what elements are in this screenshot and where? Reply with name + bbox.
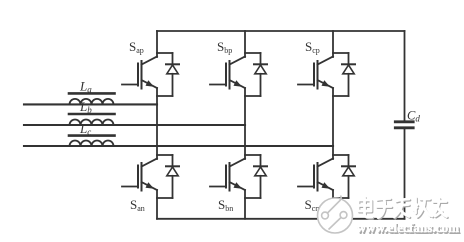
wire phase A line bbox=[24, 103, 157, 105]
diode of Scn bbox=[333, 155, 355, 198]
capacitor Cd bbox=[395, 122, 413, 128]
wire leg C verticals bbox=[332, 31, 334, 219]
inductor Lb bbox=[69, 114, 115, 125]
transistor Scn (IGBT) bbox=[298, 159, 333, 191]
wire DC link right branch upper bbox=[404, 31, 406, 120]
diode of Sap bbox=[157, 53, 179, 96]
wire DC- bottom rail bbox=[157, 218, 405, 220]
watermark url text bbox=[357, 220, 461, 236]
wire leg A verticals bbox=[156, 31, 158, 219]
inductor Lc bbox=[69, 136, 115, 146]
wire DC link right branch lower bbox=[404, 129, 406, 219]
transistor Sbp (IGBT) bbox=[210, 57, 245, 89]
diode of Scp bbox=[333, 53, 355, 96]
watermark logo circle bbox=[318, 196, 353, 234]
diode of Sbp bbox=[245, 53, 267, 96]
wire phase B line bbox=[24, 124, 245, 126]
wire DC+ top rail bbox=[157, 30, 405, 32]
diode of Sbn bbox=[245, 155, 267, 198]
transistor San (IGBT) bbox=[122, 159, 157, 191]
inductor La bbox=[69, 93, 115, 104]
transistor Sap (IGBT) bbox=[122, 57, 157, 89]
transistor Sbn (IGBT) bbox=[210, 159, 245, 191]
diode of San bbox=[157, 155, 179, 198]
transistor Scp (IGBT) bbox=[298, 57, 333, 89]
wire phase C line bbox=[24, 145, 333, 147]
wire leg B verticals bbox=[244, 31, 246, 219]
svg-text:www.elecfans.com: www.elecfans.com bbox=[357, 220, 460, 235]
